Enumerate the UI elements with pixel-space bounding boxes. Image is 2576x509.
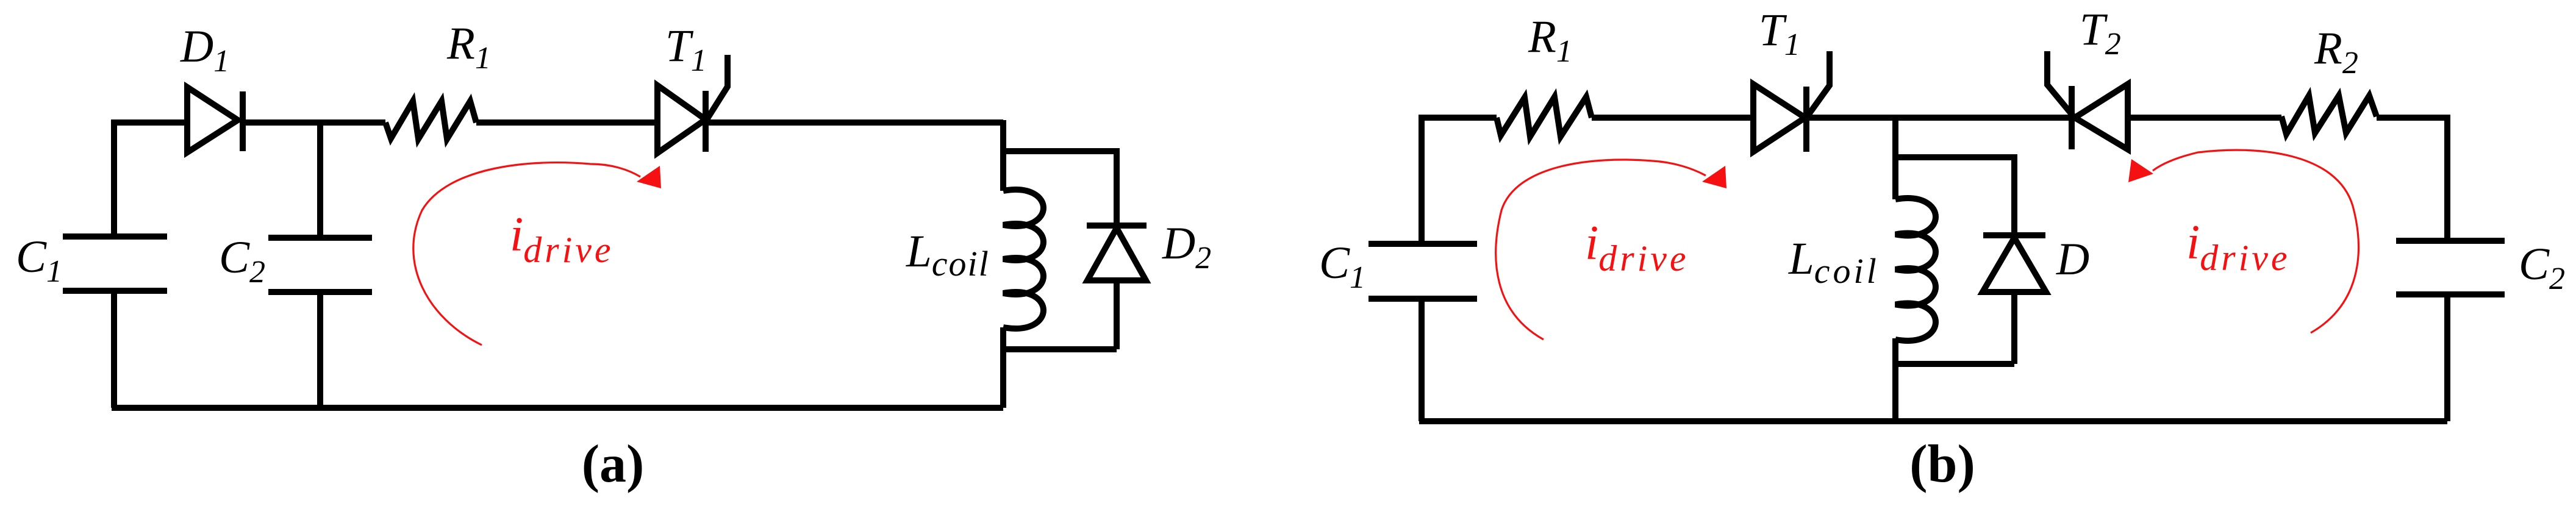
svg-text:(b): (b) (1909, 435, 1975, 494)
branch stub top to D (b) (1895, 157, 2014, 235)
resistor R1 (b) (1497, 97, 1592, 137)
inductor Lcoil (a) (1003, 190, 1043, 329)
diode D2 (1087, 226, 1147, 349)
coil branch vertical lower (b) (1892, 338, 1898, 421)
wire from R1 to T1 anode (b) (1592, 115, 1753, 121)
thyristor T1 (b) (1753, 51, 1830, 152)
right vertical wire upper (corner to coil top) (1000, 120, 1006, 191)
wire from R1 to T1 anode (476, 119, 657, 126)
coil branch vertical upper (b) (1892, 118, 1898, 199)
wire from T1 cathode to top-right corner (706, 119, 1003, 126)
red current loop arrow (a) (413, 163, 640, 345)
thyristor T2 (2047, 51, 2128, 149)
svg-text:(a): (a) (582, 435, 645, 494)
svg-text:D: D (2056, 234, 2089, 285)
resistor R1 (385, 101, 476, 139)
capacitor C2 (a) (268, 121, 372, 408)
capacitor C2 (b) (2396, 241, 2505, 421)
resistor R2 (2281, 96, 2377, 134)
right vertical wire lower (coil bottom to bottom wire) (1000, 327, 1006, 408)
bottom wire (b) (1419, 418, 2447, 424)
wire from D1 cathode to R1 (240, 119, 385, 126)
capacitor C1 (a) (63, 237, 167, 408)
red current loop arrow (b) right (2153, 150, 2358, 333)
branch stub top to D2 (1003, 151, 1117, 226)
bottom wire (a) (112, 405, 1003, 411)
wire from T1 cathode through coil junction to T2 cathode (1806, 115, 2072, 121)
thyristor T1 (657, 55, 728, 153)
branch stub bottom from D (b) (1895, 361, 2014, 367)
diode D (b) (1983, 235, 2046, 364)
inductor Lcoil (b) (1895, 198, 1936, 341)
red arrowhead (b) right (2128, 159, 2153, 182)
wire top-left from C1 branch to D1 anode (114, 123, 187, 237)
diode D1 (187, 87, 243, 152)
red arrowhead (a) (637, 166, 661, 188)
capacitor C1 (b) (1368, 244, 1477, 421)
red arrowhead (b) left (1702, 166, 1726, 188)
red current loop arrow (b) left (1496, 160, 1706, 340)
wire from R2 to top-right corner and down to C2 (b) (2377, 118, 2447, 241)
wire top-left from C1 branch to R1 (b) (1422, 118, 1497, 244)
branch stub bottom from D2 (1003, 346, 1117, 352)
wire from T2 anode to R2 (2128, 115, 2281, 121)
